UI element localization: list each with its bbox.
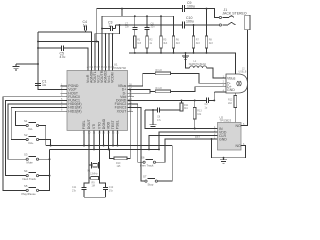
svg-text:12MHz: 12MHz	[90, 173, 98, 176]
svg-text:VDD: VDD	[107, 121, 111, 129]
wire y33.8 line pins top3 6 7 8	[95, 25, 120, 71]
svg-text:Mute: Mute	[27, 161, 34, 165]
svg-text:1M: 1M	[92, 185, 95, 188]
svg-text:S2: S2	[24, 133, 28, 137]
svg-text:1k5: 1k5	[137, 42, 142, 45]
wire top outer corner to jack tip line	[96, 9, 182, 43]
svg-text:S4: S4	[24, 169, 28, 173]
svg-text:NO: NO	[236, 124, 242, 128]
svg-text:DOUT: DOUT	[87, 118, 91, 129]
svg-text:XTI: XTI	[92, 124, 96, 129]
U1 right pin numbers	[129, 83, 132, 111]
switch S3 mute	[24, 153, 39, 165]
svg-text:1u: 1u	[42, 83, 46, 87]
svg-text:22n: 22n	[151, 26, 156, 29]
svg-text:27p: 27p	[72, 189, 77, 192]
switch S4 next track	[23, 169, 39, 181]
U1 right pin labels	[115, 84, 128, 113]
wire func2 to prev track button	[128, 104, 144, 162]
wire line B to pin top4	[37, 41, 98, 71]
wire hid1 to vol plus	[11, 108, 60, 140]
svg-text:Vol-: Vol-	[28, 127, 33, 131]
wire bus2 vdd	[50, 148, 160, 150]
switch S1 vol minus	[24, 119, 39, 131]
wire stop common to gnd bus	[157, 146, 172, 182]
svg-text:S1: S1	[24, 119, 28, 123]
USB pin numbers	[223, 75, 225, 92]
svg-text:FSEL: FSEL	[82, 120, 86, 129]
wire bottom pins to buses	[83, 130, 118, 150]
IC U1 PCM2702	[67, 62, 128, 130]
U1 left pin labels	[68, 84, 81, 113]
capacitor C6 with resistor R2 leg	[145, 15, 156, 54]
svg-text:S5: S5	[24, 184, 28, 188]
resistor R12	[228, 93, 237, 123]
wire U2 GND loop to bottom line	[195, 136, 246, 158]
wire analog ground line	[129, 53, 236, 74]
svg-text:S7: S7	[143, 175, 147, 179]
svg-text:R3 22: R3 22	[156, 69, 163, 72]
IC U2 supervisor	[218, 115, 242, 150]
wire func1 to next track	[6, 100, 61, 175]
svg-text:27p: 27p	[109, 189, 114, 192]
capacitor C12	[100, 178, 114, 197]
U1 left pin numbers	[61, 83, 63, 111]
ground symbol left	[13, 64, 20, 70]
svg-text:3k3: 3k3	[196, 42, 201, 45]
switch S7 stop	[143, 175, 157, 187]
wire buttons trio common	[39, 149, 51, 190]
U2 pin stubs	[214, 123, 248, 146]
wire func3 to stop button	[128, 108, 145, 182]
svg-text:1k5: 1k5	[117, 165, 122, 168]
svg-text:VBus: VBus	[227, 76, 236, 80]
resistor R10	[108, 89, 131, 169]
capacitor C7 with resistor R1 leg	[125, 15, 142, 54]
svg-text:USB_B: USB_B	[239, 71, 247, 74]
wire dgnd decoupling line	[128, 99, 216, 101]
svg-text:TPS3823: TPS3823	[220, 119, 232, 123]
capacitor C3	[101, 20, 115, 31]
wire line C to pin top1	[37, 47, 88, 70]
wire U2 CLR to bus2	[148, 136, 217, 151]
svg-text:PCM2702: PCM2702	[114, 66, 127, 70]
svg-text:3k3: 3k3	[176, 42, 181, 45]
svg-text:GND: GND	[219, 137, 227, 141]
svg-text:FERRITE BEAD: FERRITE BEAD	[189, 63, 207, 66]
svg-text:Vol+: Vol+	[28, 141, 34, 145]
wire S2 common	[39, 140, 52, 147]
wire hid0 to mute	[8, 104, 61, 159]
wire pin top5 tall vertical and filter line T2	[102, 16, 174, 70]
resistor R8	[205, 9, 213, 54]
wire bead right to usb vbus	[207, 68, 226, 78]
svg-text:100u: 100u	[187, 4, 195, 8]
ground symbol mid	[182, 52, 189, 59]
U1 bottom pin labels	[82, 118, 120, 129]
resistor R5	[160, 15, 168, 54]
capacitor C1	[35, 80, 46, 87]
svg-text:9k1: 9k1	[184, 107, 189, 110]
wire bead left to ground line	[186, 53, 190, 68]
svg-text:NO: NO	[236, 144, 242, 148]
svg-text:47u: 47u	[157, 119, 162, 122]
svg-text:100u: 100u	[186, 19, 194, 23]
resistor R13	[193, 99, 202, 129]
wire func0 to play pause	[3, 97, 61, 191]
capacitor C10	[183, 16, 194, 29]
svg-text:GND: GND	[227, 88, 235, 92]
wire T1 to T2 tick	[121, 8, 123, 17]
switch S5 play pause	[22, 184, 39, 196]
svg-text:RST: RST	[195, 136, 200, 139]
ground symbol reset	[150, 109, 157, 128]
resistor R3	[128, 69, 223, 86]
svg-text:3k3: 3k3	[163, 42, 168, 45]
svg-text:1u: 1u	[108, 24, 112, 28]
switch S6 prev track	[140, 156, 155, 168]
wire gnd bus1	[46, 145, 172, 147]
wire jack sleeve switch line	[241, 30, 248, 126]
U1 left pin stubs	[61, 86, 68, 111]
connector J2 USB	[222, 67, 248, 93]
crystal X1	[87, 130, 99, 175]
svg-text:Play/Pause: Play/Pause	[22, 192, 37, 196]
U1 top pin labels	[86, 70, 115, 83]
svg-text:TEST: TEST	[111, 119, 115, 129]
svg-text:S3: S3	[24, 153, 28, 157]
svg-text:HID2(M): HID2(M)	[68, 109, 81, 113]
wire C9 to corner down to tip	[185, 8, 219, 18]
capacitor C5	[60, 45, 66, 59]
switch S2 vol plus	[24, 133, 39, 145]
wire line A to pin top2	[38, 32, 92, 71]
wire reset to U2 IN	[145, 110, 218, 129]
wire audio line T3 right channel	[116, 24, 220, 26]
svg-text:R4 22: R4 22	[156, 87, 163, 90]
svg-text:47u: 47u	[60, 55, 66, 59]
svg-text:PSEL: PSEL	[116, 120, 120, 129]
capacitor C8	[157, 108, 162, 122]
svg-text:S6: S6	[141, 156, 145, 160]
U1 bottom pin numbers	[83, 132, 120, 135]
capacitor C9	[183, 1, 195, 12]
resistor R11	[180, 99, 189, 111]
capacitor C11	[72, 178, 89, 197]
wire crystal bottom rail	[84, 196, 105, 198]
wire usb gnd riser	[214, 92, 226, 100]
wire S1 common	[39, 126, 46, 146]
svg-text:3k3: 3k3	[209, 42, 214, 45]
capacitor C4	[83, 20, 88, 32]
wire C1 bottom to pin VccP	[38, 85, 67, 89]
svg-text:1u: 1u	[83, 24, 87, 28]
resistor R7	[192, 24, 200, 54]
wire ground to bus	[16, 63, 39, 65]
wire hid2 to vol minus	[15, 111, 60, 125]
wire prev track common	[156, 139, 166, 162]
wire left bus vertical	[37, 32, 39, 90]
svg-text:Stop: Stop	[148, 183, 154, 187]
resistor R9	[89, 165, 100, 188]
svg-text:JACK STEREO: JACK STEREO	[222, 12, 247, 16]
svg-text:2k2: 2k2	[228, 102, 233, 105]
resistor R4	[128, 87, 223, 94]
inductor L1 ferrite bead	[189, 60, 207, 68]
svg-text:VCOM: VCOM	[111, 72, 115, 83]
U1 right pin stubs	[128, 86, 135, 111]
svg-text:XOUT: XOUT	[117, 109, 128, 113]
wire reset line with shunt cap	[145, 109, 182, 111]
wire U2 GND from prev track common	[165, 139, 218, 162]
capacitor C2	[205, 98, 209, 110]
svg-text:Prev Track: Prev Track	[140, 164, 154, 168]
svg-text:DGND: DGND	[102, 118, 106, 129]
connector J1 jack stereo	[219, 8, 250, 30]
svg-text:22n: 22n	[125, 26, 130, 29]
wire U2 VDD drop	[159, 132, 218, 149]
U1 top pin numbers	[87, 66, 115, 69]
svg-text:Next Track: Next Track	[23, 177, 37, 181]
resistor R6	[172, 16, 180, 54]
ground symbol U2	[220, 157, 227, 163]
